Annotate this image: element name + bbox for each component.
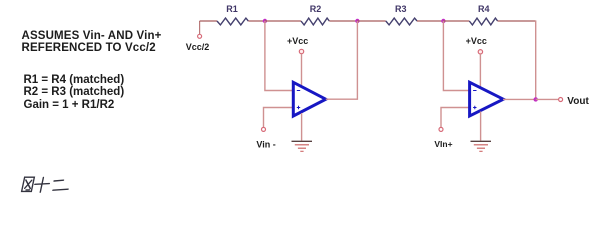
- wire: top rail Vcc/2 to R1: [200, 20, 217, 22]
- wire: node 1 to R2: [265, 20, 301, 22]
- wire: +Vcc supply stem to U2: [479, 54, 481, 88]
- wire: node 2 to R3: [357, 20, 385, 22]
- ground (U1): [292, 113, 313, 151]
- wire: node 3 to R4: [443, 20, 469, 22]
- wire: R1 to node 1: [248, 20, 265, 22]
- svg-text:R1: R1: [226, 4, 238, 14]
- svg-text:+Vcc: +Vcc: [466, 36, 487, 46]
- node Vout junction: [534, 97, 538, 101]
- wire: Vcc/2 terminal riser: [199, 21, 201, 34]
- terminal Vin+: [439, 127, 443, 131]
- terminal Vcc/2: [198, 34, 202, 38]
- svg-text:R4: R4: [478, 4, 490, 14]
- note: assumes text block: [22, 31, 162, 54]
- svg-text:Vout: Vout: [567, 96, 589, 107]
- wire: Vout node to Vout terminal: [536, 98, 559, 100]
- terminal Vin-: [262, 127, 266, 131]
- svg-text:R3: R3: [395, 4, 407, 14]
- wire: node 3 drop to U2 inverting input: [443, 21, 469, 91]
- terminal Vout: [559, 98, 563, 102]
- node 1 (R1/R2 junction): [263, 19, 267, 23]
- note: matching equations text block: [24, 74, 125, 112]
- terminal +Vcc (U2): [478, 50, 482, 54]
- node 3 (R3/R4 junction): [441, 19, 445, 23]
- resistor R1: [217, 18, 248, 25]
- wire: node 1 drop to U1 inverting input: [265, 21, 293, 91]
- wire: U1 output to feedback riser: [326, 21, 358, 99]
- svg-text:R2: R2: [310, 4, 322, 14]
- wire: +Vcc supply stem to U1: [301, 54, 303, 87]
- svg-text:VIn+: VIn+: [434, 139, 452, 149]
- wire: U2 output to Vout node: [503, 98, 536, 100]
- op-amp U1: [293, 82, 326, 116]
- wire: R3 to node 3: [417, 20, 443, 22]
- svg-text:Vin -: Vin -: [256, 139, 275, 149]
- wire: Vin+ terminal to U2 non-inverting input: [441, 108, 470, 128]
- node 2 (R2/R3 junction): [355, 19, 359, 23]
- svg-text:Vcc/2: Vcc/2: [186, 42, 210, 52]
- resistor R2: [301, 18, 329, 25]
- wire: R4 to right corner: [498, 20, 536, 22]
- op-amp U2: [470, 82, 504, 116]
- wire: Vin- terminal to U1 non-inverting input: [264, 108, 294, 128]
- resistor R4: [469, 18, 497, 25]
- ground (U2): [471, 112, 492, 152]
- wire: R2 to node 2: [329, 20, 357, 22]
- wire: feedback drop from R4 to output node: [535, 20, 537, 99]
- resistor R3: [386, 18, 417, 25]
- caption: figure twelve (Chinese): [21, 177, 70, 192]
- svg-text:+Vcc: +Vcc: [287, 36, 308, 46]
- terminal +Vcc (U1): [299, 49, 303, 53]
